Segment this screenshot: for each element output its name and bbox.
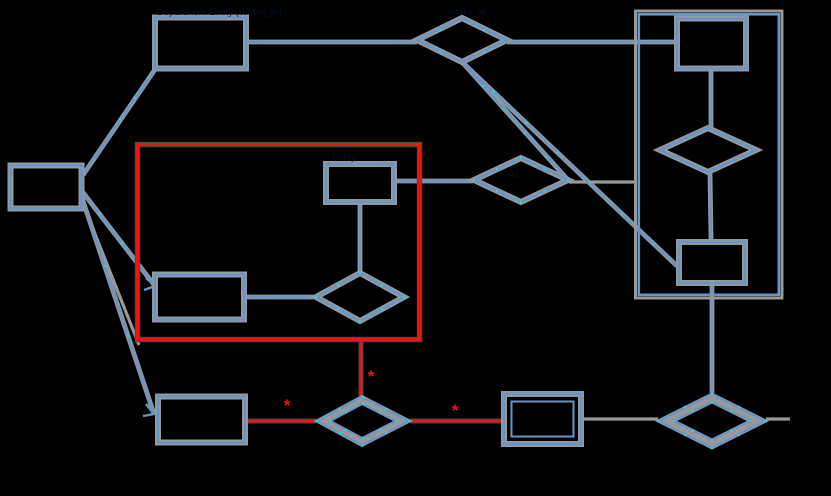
svg-text:*: * bbox=[284, 396, 291, 415]
svg-text:Entity: Entity bbox=[332, 152, 356, 163]
svg-text:Department Entity (Works_In): Department Entity (Works_In) bbox=[157, 7, 282, 18]
svg-text:works_at: works_at bbox=[447, 7, 486, 18]
svg-text:*: * bbox=[452, 401, 459, 420]
svg-text:rel: rel bbox=[508, 169, 519, 180]
svg-text:*: * bbox=[368, 367, 375, 386]
